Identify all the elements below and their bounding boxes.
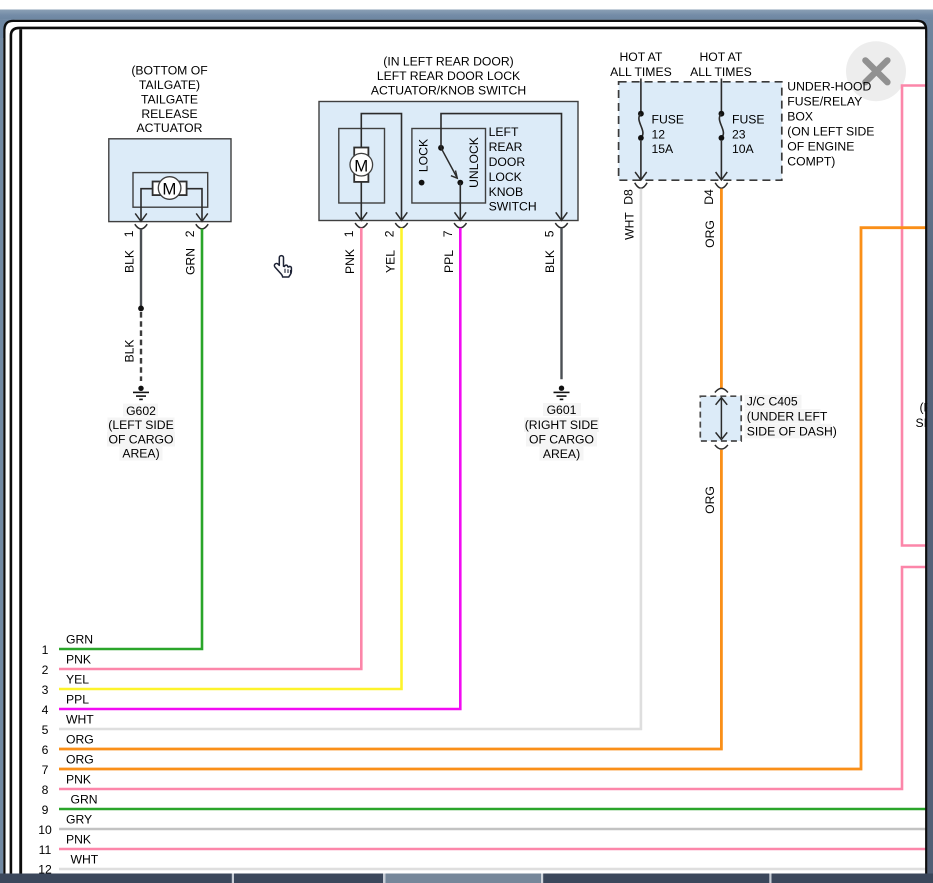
svg-text:2: 2 [42, 663, 49, 677]
tailgate release actuator box [109, 139, 231, 222]
svg-text:7: 7 [441, 230, 455, 237]
svg-text:BLK: BLK [543, 250, 557, 273]
svg-text:GRY: GRY [66, 812, 92, 826]
svg-text:ACTUATOR: ACTUATOR [137, 121, 203, 135]
svg-text:WHT: WHT [71, 852, 99, 866]
wire switch common to pin5 [441, 114, 562, 221]
top-right corner patch [915, 20, 933, 38]
close button [846, 41, 906, 101]
svg-text:12: 12 [652, 127, 666, 141]
junction dot [138, 306, 144, 312]
svg-text:YEL: YEL [383, 250, 397, 273]
motor M door lock [350, 148, 373, 182]
fuse 12 pin D8 connector [635, 172, 647, 180]
top blue-grey band [0, 10, 933, 20]
svg-text:FUSE: FUSE [732, 112, 765, 126]
wire switch unlock to pin7 [459, 183, 461, 221]
svg-text:(IN LEFT REAR DOOR): (IN LEFT REAR DOOR) [383, 55, 513, 69]
wire GRN circuit 1 [59, 229, 202, 649]
svg-text:BLK: BLK [123, 250, 137, 273]
svg-text:23: 23 [732, 127, 746, 141]
svg-text:HOT AT: HOT AT [619, 50, 662, 64]
svg-text:15A: 15A [652, 142, 675, 156]
svg-text:1: 1 [42, 643, 49, 657]
J/C C405 label [745, 395, 837, 439]
svg-text:J/C C405: J/C C405 [747, 395, 798, 409]
wire WHT circuit 12 [59, 868, 926, 871]
right outside blue strip [927, 20, 933, 883]
svg-text:1: 1 [122, 230, 136, 237]
svg-text:OF CARGO: OF CARGO [108, 432, 173, 446]
svg-text:GRN: GRN [71, 792, 98, 806]
FRAME [927, 20, 933, 883]
pink box label fragment [916, 401, 932, 430]
svg-text:2: 2 [382, 230, 396, 237]
svg-text:BLK: BLK [123, 339, 137, 362]
svg-text:ALL TIMES: ALL TIMES [610, 65, 672, 79]
motor M tailgate [153, 177, 187, 200]
pin 2 connector arrow [196, 213, 208, 221]
svg-text:COMPT): COMPT) [787, 154, 835, 168]
ground G601 label [524, 403, 599, 461]
svg-text:HOT AT: HOT AT [699, 50, 742, 64]
ground G601 symbol [554, 386, 570, 400]
J/C C405 arrows [716, 398, 728, 440]
svg-text:LEFT REAR DOOR LOCK: LEFT REAR DOOR LOCK [377, 69, 520, 83]
svg-text:REAR: REAR [489, 140, 523, 154]
J/C C405 bottom arc [715, 445, 728, 449]
svg-text:6: 6 [42, 743, 49, 757]
fuse 23 label [732, 112, 765, 155]
svg-text:4: 4 [42, 703, 49, 717]
tailgate release actuator label [131, 64, 207, 136]
fuse 12 label [652, 112, 685, 155]
svg-text:2: 2 [183, 230, 197, 237]
svg-text:G601: G601 [547, 403, 577, 417]
svg-text:3: 3 [42, 683, 49, 697]
svg-text:WHT: WHT [623, 212, 637, 240]
svg-text:AREA): AREA) [543, 447, 580, 461]
svg-text:TAILGATE: TAILGATE [141, 92, 198, 106]
svg-text:GRN: GRN [184, 248, 198, 275]
pin 7 connector (PPL) [455, 212, 467, 220]
third sheet edge line [19, 29, 22, 883]
wire PNK circuit 8 [59, 567, 930, 789]
svg-text:M: M [162, 180, 176, 199]
svg-text:5: 5 [542, 230, 556, 237]
svg-text:D4: D4 [702, 189, 716, 205]
tailgate actuator inner assembly box [133, 173, 208, 208]
svg-text:GRN: GRN [66, 632, 93, 646]
svg-text:10A: 10A [732, 142, 755, 156]
svg-text:ORG: ORG [703, 486, 717, 514]
switch common contact dot [438, 145, 444, 151]
svg-text:(ON LEFT SIDE: (ON LEFT SIDE [787, 124, 874, 138]
pin 2 connector (YEL) [396, 212, 408, 220]
node HOT AT ALL TIMES fuse 23 [690, 50, 752, 79]
svg-text:ORG: ORG [66, 752, 94, 766]
door lock actuator box [319, 102, 578, 221]
svg-text:PPL: PPL [442, 250, 456, 273]
pin 1 connector (PNK) [356, 212, 368, 220]
svg-text:DOOR: DOOR [489, 155, 526, 169]
node HOT AT ALL TIMES fuse 12 [610, 50, 672, 79]
door lock knob switch label [489, 125, 537, 214]
wire ORG circuit 7 [59, 228, 930, 769]
bottom bar [0, 874, 933, 883]
top-left corner patch [0, 20, 15, 38]
wire YEL circuit 3 [59, 228, 402, 689]
svg-text:LOCK: LOCK [489, 170, 522, 184]
wire GRN circuit 9 [59, 808, 926, 811]
svg-text:11: 11 [39, 843, 52, 857]
wire BLK dashed [140, 312, 142, 381]
fuse 23 10A [719, 79, 725, 180]
svg-text:LOCK: LOCK [417, 139, 431, 172]
svg-text:RELEASE: RELEASE [141, 107, 197, 121]
left outside blue strip [0, 20, 3, 883]
pin 5 connector (BLK) [556, 212, 568, 220]
J/C C405 top arc [715, 388, 728, 392]
svg-text:FUSE/RELAY: FUSE/RELAY [787, 94, 862, 108]
J/C C405 box [700, 396, 741, 441]
svg-text:OF CARGO: OF CARGO [529, 433, 594, 447]
wire motor right lead [185, 189, 202, 222]
svg-text:(BOTTOM OF: (BOTTOM OF [131, 64, 207, 78]
pink component box right [902, 86, 930, 546]
pin 1 connector arrow [135, 213, 147, 221]
switch LOCK contact dot [419, 180, 425, 186]
svg-text:SWITCH: SWITCH [489, 200, 537, 214]
door lock actuator label [371, 55, 526, 98]
svg-text:ORG: ORG [66, 732, 94, 746]
pin 2 connector arc [196, 224, 208, 229]
svg-text:G602: G602 [126, 404, 156, 418]
door lock motor box [339, 129, 385, 204]
svg-text:OF ENGINE: OF ENGINE [787, 139, 854, 153]
svg-text:BOX: BOX [787, 109, 813, 123]
svg-text:1: 1 [342, 230, 356, 237]
svg-text:AREA): AREA) [122, 447, 159, 461]
svg-text:7: 7 [42, 763, 49, 777]
svg-text:WHT: WHT [66, 712, 94, 726]
svg-text:PNK: PNK [343, 249, 357, 274]
svg-text:SIDE OF DASH): SIDE OF DASH) [747, 425, 837, 439]
svg-text:TAILGATE): TAILGATE) [139, 78, 200, 92]
svg-text:ORG: ORG [703, 220, 717, 248]
svg-text:FUSE: FUSE [652, 112, 685, 126]
svg-text:UNDER-HOOD: UNDER-HOOD [787, 79, 871, 93]
ground G602 label [107, 404, 175, 461]
wire motor top lead to pin2 [361, 114, 401, 221]
wire PNK circuit 11 [59, 848, 926, 851]
door lock knob switch box [412, 129, 486, 204]
svg-text:KNOB: KNOB [489, 185, 524, 199]
wire ORG circuit 6 [59, 450, 721, 749]
svg-text:D8: D8 [622, 189, 636, 205]
pin 1 connector arc [135, 224, 147, 229]
svg-text:10: 10 [38, 823, 52, 837]
under-hood fuse/relay box label [787, 79, 874, 168]
svg-text:UNLOCK: UNLOCK [467, 137, 481, 188]
svg-text:5: 5 [42, 723, 49, 737]
wire BLK tailgate pin1 solid [140, 229, 142, 306]
fuse 23 pin D4 connector [716, 172, 728, 180]
svg-text:PNK: PNK [66, 652, 91, 666]
svg-text:PNK: PNK [66, 832, 91, 846]
wire PNK circuit 2 [59, 228, 361, 669]
under-hood fuse/relay box [619, 82, 782, 180]
circuit numbers [38, 643, 52, 877]
switch arm [441, 148, 457, 178]
mouse hand cursor [274, 256, 291, 277]
svg-text:LEFT: LEFT [489, 125, 519, 139]
fuse 12 15A [638, 79, 644, 180]
circuit color labels [66, 632, 99, 866]
svg-text:ACTUATOR/KNOB SWITCH: ACTUATOR/KNOB SWITCH [371, 83, 526, 97]
svg-text:9: 9 [42, 803, 49, 817]
svg-text:PNK: PNK [66, 772, 91, 786]
svg-text:PPL: PPL [66, 692, 89, 706]
switch UNLOCK contact dot [457, 180, 463, 186]
svg-text:(UNDER LEFT: (UNDER LEFT [747, 409, 828, 423]
wire ORG fuse23 upper [720, 189, 723, 389]
svg-text:ALL TIMES: ALL TIMES [690, 65, 752, 79]
wire PPL circuit 4 [59, 228, 460, 709]
svg-text:(LEFT SIDE: (LEFT SIDE [108, 418, 173, 432]
svg-text:YEL: YEL [66, 672, 89, 686]
wire GRY circuit 10 [59, 828, 926, 831]
wire motor left lead [141, 189, 154, 222]
svg-text:M: M [354, 156, 368, 175]
wire WHT circuit 5 [59, 189, 641, 730]
svg-text:8: 8 [42, 783, 49, 797]
wire BLK pin 5 [560, 228, 562, 379]
wire motor bottom lead [360, 182, 362, 221]
svg-text:(RIGHT SIDE: (RIGHT SIDE [525, 418, 599, 432]
switch arm arrowhead [451, 171, 457, 179]
ground G602 symbol [133, 386, 149, 400]
